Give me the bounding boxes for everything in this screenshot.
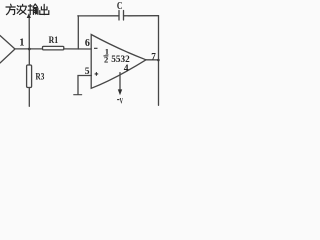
-V label [117, 99, 119, 101]
wire R3 top [28, 49, 30, 65]
node junction right [157, 59, 160, 62]
wire [15, 48, 43, 50]
arrowhead -V [118, 89, 122, 95]
svg-text:1: 1 [19, 38, 24, 49]
svg-text:2: 2 [104, 55, 108, 65]
op-amp plus input [95, 72, 99, 76]
ground [74, 94, 82, 96]
node junction left [28, 48, 31, 51]
wire pin5 to ground [78, 76, 91, 95]
wire capacitor left lead down [77, 16, 79, 49]
op-amp U1a (left, partially cut) [0, 36, 15, 64]
capacitor C leads [78, 15, 159, 17]
label 方波输出 (square wave output) [6, 4, 49, 15]
arrowhead output [27, 13, 31, 18]
wire pin4 down [119, 73, 121, 90]
resistor R3 [27, 65, 32, 88]
wire right vertical [158, 16, 160, 106]
svg-text:V: V [120, 95, 124, 105]
svg-text:R3: R3 [36, 72, 45, 82]
op-amp minus input [94, 47, 98, 49]
capacitor C plates [119, 11, 124, 21]
svg-text:5: 5 [85, 66, 90, 77]
op-amp U1b triangle [91, 35, 146, 89]
wire [64, 48, 91, 50]
wire bottom rail [5, 104, 159, 106]
svg-text:7: 7 [151, 51, 156, 61]
wire output pin7 [146, 59, 159, 61]
svg-text:5532: 5532 [111, 54, 130, 65]
svg-text:6: 6 [85, 38, 90, 49]
svg-text:R1: R1 [49, 36, 59, 46]
svg-text:C: C [117, 0, 123, 12]
resistor R1 [43, 46, 64, 50]
arrow up output [28, 18, 30, 50]
wire R3 bottom [28, 88, 30, 107]
